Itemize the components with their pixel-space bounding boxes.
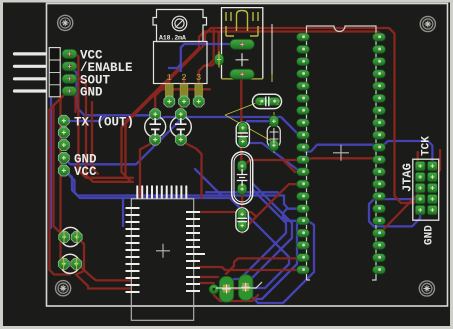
wire red module row stub bbox=[200, 212, 256, 217]
wire blue gnd row diag bbox=[66, 115, 185, 164]
wire red left long B bbox=[54, 95, 65, 236]
wire red bottom mid to dip 2 bbox=[197, 267, 303, 270]
wire red caps to module bbox=[76, 237, 130, 289]
component S1 cross bbox=[236, 53, 249, 66]
diode D1 vertical bbox=[267, 116, 280, 151]
wire red branch to row12 bbox=[283, 160, 303, 172]
hole H1 bbox=[58, 15, 73, 30]
component S1 yellow outline bbox=[222, 8, 263, 79]
via V1 bbox=[209, 285, 219, 295]
svg-text:JTAG: JTAG bbox=[401, 163, 415, 192]
wire red reg pad3b bbox=[208, 30, 214, 66]
wire red module right to pads bbox=[200, 277, 258, 301]
wire blue tx pad stub bbox=[68, 115, 106, 121]
wire red to C1 top bbox=[155, 86, 165, 114]
svg-text:2: 2 bbox=[276, 100, 280, 107]
wire red vcc hdr down bbox=[70, 54, 133, 178]
wire red top run 1 bbox=[205, 28, 420, 203]
wire red dip row10 cross bbox=[244, 158, 379, 165]
wire red top run 2 bbox=[199, 32, 383, 49]
svg-text:3: 3 bbox=[196, 73, 201, 83]
regulator U1 hole pads bbox=[164, 96, 175, 107]
wire blue bottom diagonal A bbox=[252, 221, 314, 303]
wire red cap below down bbox=[241, 226, 243, 233]
capacitor C3 horizontal bbox=[253, 94, 282, 108]
wire blue mid diag D2 bbox=[234, 190, 286, 279]
svg-text:A18.2mA: A18.2mA bbox=[159, 35, 186, 42]
capacitor C5 below crystal bbox=[236, 208, 249, 232]
module U2 cross bbox=[156, 244, 170, 258]
regulator U1 outline bbox=[153, 10, 207, 84]
capacitor C7 electrolytic bbox=[58, 254, 82, 273]
wire red jtag row1 stub bbox=[418, 152, 421, 166]
wire red nets bbox=[50, 28, 441, 301]
capacitor C6 electrolytic bbox=[59, 227, 83, 246]
wire red across reg pads bbox=[158, 88, 210, 90]
wire blue dip row9 cross bbox=[305, 145, 379, 152]
pad left of S1 bbox=[214, 54, 223, 65]
silk line through pads bbox=[216, 282, 262, 288]
IC1 right pads bbox=[373, 33, 386, 274]
wire blue vcc pair A bbox=[65, 171, 301, 209]
wire red via to pads bbox=[214, 288, 250, 290]
wire blue third pair line bbox=[206, 191, 278, 193]
IC1 center cross bbox=[333, 145, 349, 161]
pad column TX bbox=[58, 115, 69, 126]
wire red right edge down bbox=[436, 150, 440, 177]
wire blue crystal cap link bbox=[247, 120, 272, 122]
crystal Q1 bbox=[232, 152, 253, 205]
wire blue left vertical bbox=[50, 96, 52, 228]
wire red left long A bbox=[50, 97, 71, 275]
wire red reg pads down bbox=[199, 32, 219, 102]
wire red diag left B bbox=[126, 48, 200, 182]
connector JP1 pins bbox=[15, 54, 46, 91]
wire blue vcc pair B bbox=[67, 173, 289, 288]
connector SV1 jtag box bbox=[413, 159, 439, 220]
silk line right of S1 bbox=[271, 24, 273, 74]
module U2 outline bbox=[131, 199, 193, 320]
wire red sout hdr to module bbox=[70, 79, 133, 182]
wire red to C2 top bbox=[181, 97, 184, 114]
wire blue mid diag D1 bbox=[248, 184, 292, 282]
wire blue /ENABLE to mid bbox=[70, 66, 151, 115]
pad P2 big bbox=[239, 275, 253, 301]
wire blue dip to jtag top bbox=[381, 141, 432, 166]
module U2 top pads bbox=[137, 186, 186, 199]
component S1 pads bbox=[230, 39, 254, 79]
IC1 left pads bbox=[297, 33, 310, 274]
wire red dip to jtag mid bbox=[379, 191, 420, 233]
wire red left long C bbox=[61, 93, 67, 267]
connector SV1 pads bbox=[415, 161, 437, 214]
connector JP1 body bbox=[49, 48, 60, 97]
regulator U1 smd pads bbox=[166, 84, 203, 97]
wire blue nets bbox=[51, 66, 432, 303]
airwire yellow ratsnest bbox=[225, 102, 274, 154]
svg-text:GND: GND bbox=[80, 86, 103, 100]
svg-text:VCC: VCC bbox=[74, 165, 97, 179]
wire red caps to module B bbox=[77, 264, 130, 281]
wire red bottom mid to dip bbox=[226, 258, 303, 274]
hole H3 bbox=[419, 281, 434, 296]
svg-text:1: 1 bbox=[259, 100, 263, 107]
wire red crystal to cap below bbox=[241, 189, 243, 214]
module U2 left pads bbox=[126, 208, 140, 292]
wire blue module diagonal bbox=[195, 169, 222, 196]
pad P1 big bbox=[219, 277, 233, 303]
wire blue staple right pads bbox=[369, 199, 420, 226]
wire blue staple left pads bbox=[283, 209, 301, 221]
connector JP1 pads bbox=[62, 49, 77, 58]
svg-text:GND: GND bbox=[424, 225, 436, 245]
wire red yellowcomp down to crystal bbox=[240, 76, 242, 166]
wire blue module stub bbox=[122, 198, 124, 226]
wire red cap2 down bbox=[181, 141, 202, 198]
IC1 dip outline bbox=[307, 26, 377, 280]
wire red gnd hdr down bbox=[70, 91, 76, 112]
capacitor C2 bbox=[170, 109, 191, 145]
wire blue cap2 bottom to dip bbox=[246, 143, 303, 172]
svg-text:TCK: TCK bbox=[421, 136, 433, 156]
capacitor C1 bbox=[145, 109, 166, 145]
svg-text:1: 1 bbox=[167, 73, 172, 83]
wire blue mid vertical D3 bbox=[256, 222, 297, 299]
hole H4 bbox=[56, 281, 71, 296]
module U2 right pads bbox=[186, 212, 205, 291]
svg-text:2: 2 bbox=[181, 73, 186, 83]
capacitor C4 vertical bbox=[236, 122, 249, 147]
wire red reg pad stubs bbox=[169, 77, 184, 90]
wire red cap to dip bbox=[242, 184, 303, 226]
wire blue caps to dip bbox=[159, 117, 303, 135]
wire red mid vertical bbox=[92, 102, 98, 174]
wire red cap1 diag bbox=[140, 141, 156, 198]
wire blue into S1 bbox=[168, 44, 237, 68]
wire red diag left A bbox=[122, 44, 206, 178]
hole H2 bbox=[420, 16, 435, 31]
svg-text:TX (OUT): TX (OUT) bbox=[74, 116, 134, 130]
